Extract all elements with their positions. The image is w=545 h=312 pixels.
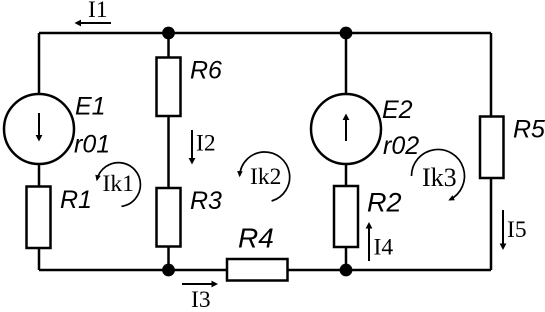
svg-text:R6: R6 xyxy=(190,57,222,85)
wire right vertical lower xyxy=(490,178,493,270)
voltage source E2 r02 xyxy=(311,94,381,164)
current arrow I5 xyxy=(500,210,527,250)
resistor R3 xyxy=(157,188,181,247)
mesh current Ik3 xyxy=(411,149,464,200)
svg-text:Ik3: Ik3 xyxy=(422,163,457,192)
voltage source E1 r01 xyxy=(4,94,74,164)
wire R6 to R3 xyxy=(167,116,170,188)
wire E2 to R2 xyxy=(345,164,348,187)
svg-text:I5: I5 xyxy=(507,217,527,243)
wire R1 to bottom xyxy=(38,248,41,270)
wire R2 to bottom xyxy=(345,247,348,270)
current arrow I2 xyxy=(189,130,216,165)
svg-text:R4: R4 xyxy=(238,223,274,254)
svg-text:I3: I3 xyxy=(191,287,211,312)
svg-text:Ik1: Ik1 xyxy=(103,171,134,197)
svg-text:Ik2: Ik2 xyxy=(250,164,281,190)
node bottom-right junction xyxy=(340,264,353,277)
wire bottom right horizontal xyxy=(288,269,492,272)
node top-left junction xyxy=(162,27,175,40)
resistor R1 xyxy=(27,187,51,249)
svg-text:R3: R3 xyxy=(190,187,222,215)
svg-text:R2: R2 xyxy=(367,188,402,218)
current arrow I3 xyxy=(182,281,218,312)
wire R3 to bottom xyxy=(167,247,170,271)
svg-text:R5: R5 xyxy=(513,116,545,144)
node bottom-left junction xyxy=(162,264,175,277)
current arrow I1 xyxy=(75,0,112,26)
svg-text:E2: E2 xyxy=(382,96,413,124)
wire branch E2 top xyxy=(345,33,348,95)
svg-text:I2: I2 xyxy=(196,131,216,157)
wire bottom left horizontal xyxy=(39,269,228,272)
resistor R4 xyxy=(227,259,288,281)
resistor R5 xyxy=(480,117,504,179)
svg-text:r01: r01 xyxy=(74,131,110,159)
current arrow I4 xyxy=(366,222,394,261)
svg-text:E1: E1 xyxy=(75,93,106,121)
svg-text:r02: r02 xyxy=(383,132,419,160)
mesh current Ik2 xyxy=(237,152,290,201)
wire left vertical upper xyxy=(38,33,41,95)
wire branch R6 top xyxy=(167,33,170,58)
wire right vertical upper xyxy=(490,33,493,117)
resistor R2 xyxy=(334,186,358,247)
wire E1 to R1 xyxy=(38,164,41,187)
mesh current Ik1 xyxy=(95,163,140,207)
svg-text:R1: R1 xyxy=(60,186,92,214)
svg-text:I1: I1 xyxy=(88,0,108,23)
resistor R6 xyxy=(157,58,181,117)
wire top horizontal xyxy=(39,32,491,35)
node top-right junction xyxy=(340,27,353,40)
svg-text:I4: I4 xyxy=(374,235,394,261)
